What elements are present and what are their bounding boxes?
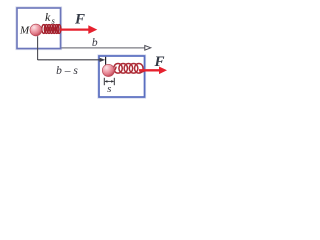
svg-text:k: k — [45, 10, 51, 24]
svg-text:s: s — [107, 83, 111, 95]
svg-text:F: F — [74, 12, 85, 28]
svg-text:b – s: b – s — [56, 65, 78, 77]
svg-text:M: M — [19, 25, 30, 37]
svg-text:F: F — [154, 54, 165, 70]
svg-text:b: b — [92, 37, 98, 49]
